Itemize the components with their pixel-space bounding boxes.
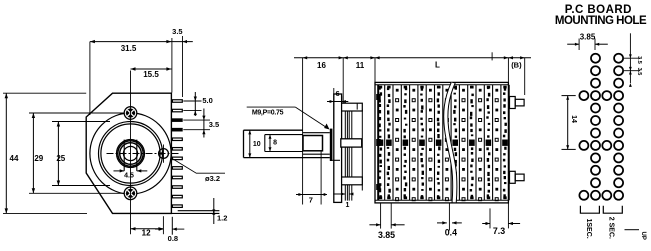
side view: bushing OD lines xyxy=(303,132,330,134)
side view: index wafer lines xyxy=(344,108,346,201)
svg-text:44: 44 xyxy=(10,154,19,163)
side view: spacer line xyxy=(361,110,363,191)
front view: bottom terminal line xyxy=(178,210,220,212)
svg-text:1: 1 xyxy=(345,202,349,209)
svg-text:3.5: 3.5 xyxy=(636,56,642,64)
dim 1.2 xyxy=(213,198,215,224)
dim 25 xyxy=(57,122,59,186)
chain ext verticals xyxy=(342,58,344,103)
side view: shaft dia10 top line xyxy=(244,129,303,131)
svg-text:12: 12 xyxy=(142,229,151,238)
front view: shaft knurl ring b xyxy=(120,143,142,165)
dim 7.3 (last wafer pitch) xyxy=(489,208,491,228)
front view: body circle 3 xyxy=(101,124,160,183)
svg-text:0.4: 0.4 xyxy=(445,228,457,238)
label dia 3.2 leader xyxy=(171,158,226,174)
dim 5.0 (terminal spacing) xyxy=(183,100,201,102)
front view: switch body mounting plate xyxy=(86,93,171,213)
pcb hole columns xyxy=(591,54,600,63)
front view: shaft slot left edge xyxy=(123,140,125,171)
svg-text:10: 10 xyxy=(253,141,261,148)
svg-text:3.5: 3.5 xyxy=(209,120,219,129)
dim 44 xyxy=(5,93,7,213)
dim 0.8 xyxy=(162,216,164,234)
side view: break line right xyxy=(448,82,457,202)
label M9,P=0.75 xyxy=(247,106,296,108)
svg-text:0.8: 0.8 xyxy=(168,234,178,243)
front view: bottom mounting screw xyxy=(124,187,136,199)
dim 3.85 (wafer thickness) xyxy=(380,203,382,229)
side view: shaft tip edge xyxy=(243,130,245,157)
side view: wafer stack outline xyxy=(375,82,508,202)
front view: terminal comb teeth xyxy=(172,100,182,103)
svg-text:1.2: 1.2 xyxy=(217,213,227,222)
svg-text:16: 16 xyxy=(317,61,326,70)
svg-text:4.5: 4.5 xyxy=(124,173,134,180)
side view: stack top inner line xyxy=(375,84,508,86)
front view: shaft knurl ring a xyxy=(118,141,143,166)
svg-text:1SEC.: 1SEC. xyxy=(585,219,592,239)
side view: break zone whiteout xyxy=(446,83,455,202)
front view: shaft slot right edge xyxy=(136,140,138,171)
side view: shaft dia10 bottom line xyxy=(244,157,330,159)
svg-text:8: 8 xyxy=(273,140,277,147)
dim chain 16 / 11 / L / (B) xyxy=(294,57,531,59)
dim 10 xyxy=(249,130,251,157)
svg-text:3.5: 3.5 xyxy=(172,27,182,36)
side view: break line left xyxy=(444,82,453,202)
svg-text:25: 25 xyxy=(56,154,65,163)
front view: shaft core circle xyxy=(123,146,137,160)
side view: bottom tab xyxy=(342,177,363,185)
dim 12 xyxy=(131,228,164,230)
svg-text:15.5: 15.5 xyxy=(143,70,159,79)
dim 15.5 xyxy=(131,68,172,70)
front view: body outer circle xyxy=(90,113,171,194)
label UP xyxy=(625,229,640,231)
svg-text:UP: UP xyxy=(640,232,646,240)
pcb dim 3.85 xyxy=(578,39,580,51)
svg-text:M9,P=0.75: M9,P=0.75 xyxy=(252,110,284,117)
front view: small hole dia 3.2 xyxy=(159,149,169,159)
svg-text:7.3: 7.3 xyxy=(493,226,505,236)
side view: right terminal 1 xyxy=(510,97,516,109)
svg-text:5.0: 5.0 xyxy=(202,96,212,105)
side view: boss bottom line xyxy=(332,159,340,161)
side view: stack left end plate xyxy=(377,85,379,201)
side view: mounting plate xyxy=(334,94,342,202)
svg-text:2 SEC.: 2 SEC. xyxy=(608,217,615,239)
dim 7 xyxy=(320,151,322,205)
front view: vertical centerline xyxy=(130,71,132,235)
svg-text:11: 11 xyxy=(356,61,365,70)
front view: arrow at hole xyxy=(158,152,163,155)
pcb dim 14 xyxy=(562,95,576,97)
svg-text:3.85: 3.85 xyxy=(580,33,596,42)
pcb bracket 2SEC xyxy=(603,206,622,213)
front view: plate bottom extension xyxy=(171,212,219,214)
dim 31.5 xyxy=(90,41,193,43)
dim 3.5 top (terminal length) xyxy=(171,38,173,93)
svg-text:L: L xyxy=(435,60,440,69)
svg-text:14: 14 xyxy=(570,115,577,123)
pcb bracket 1SEC xyxy=(580,206,599,213)
side view: wafer units pattern xyxy=(384,85,386,201)
dim 4.5 (slot width) xyxy=(114,170,125,172)
svg-text:7: 7 xyxy=(309,196,313,205)
svg-text:3.85: 3.85 xyxy=(378,230,395,240)
dim 29 xyxy=(32,113,34,193)
side view: threaded bushing rect xyxy=(303,136,323,151)
svg-text:31.5: 31.5 xyxy=(121,44,137,53)
dim 8 xyxy=(269,135,271,152)
side view: right terminal 2 xyxy=(510,171,516,183)
svg-text:MOUNTING HOLE: MOUNTING HOLE xyxy=(555,15,647,27)
dim 3.5 (terminal pitch) xyxy=(183,119,210,121)
dim 1 (plate thickness) xyxy=(333,193,345,195)
side view: top tab xyxy=(342,103,363,111)
front view: body circle 2 xyxy=(99,122,163,186)
dim 0.4 (break gap) xyxy=(448,203,450,231)
side view: rotor hub box xyxy=(341,139,362,147)
side view: stack bottom inner line xyxy=(375,199,508,201)
front view: top mounting screw xyxy=(124,107,136,119)
dim 6 xyxy=(333,88,335,128)
svg-text:29: 29 xyxy=(34,154,43,163)
svg-text:(B): (B) xyxy=(511,61,522,70)
side view: shaft flat dia8 lines xyxy=(265,134,303,136)
front view: shaft bushing outer ring xyxy=(117,140,145,168)
svg-text:ø3.2: ø3.2 xyxy=(205,174,220,183)
pcb dim 3.5 x2 right xyxy=(629,33,631,83)
front view: horizontal centerline xyxy=(107,153,180,155)
svg-text:6: 6 xyxy=(336,89,340,98)
side view: top tab inner step xyxy=(356,103,358,109)
side view: bushing face bar xyxy=(330,129,333,161)
svg-text:3.5: 3.5 xyxy=(636,68,642,76)
dim 16/7 extension vertical xyxy=(302,58,304,205)
